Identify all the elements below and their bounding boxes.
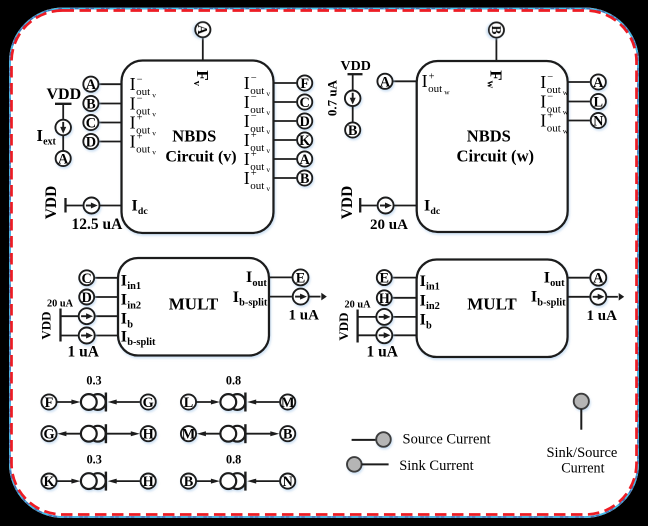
svg-text:B: B xyxy=(348,123,358,139)
node B (top of w) xyxy=(489,22,504,37)
node L xyxy=(591,94,606,111)
svg-text:out: out xyxy=(547,122,561,134)
pin Iin1 xyxy=(121,273,141,293)
wire rail to Ib source xyxy=(358,316,377,318)
node A (w left) xyxy=(377,74,392,91)
pin I+out_v (right) xyxy=(244,168,271,193)
svg-text:v: v xyxy=(266,127,270,136)
mirror F-G: bar xyxy=(105,393,107,412)
svg-text:K: K xyxy=(43,474,55,490)
svg-text:0.3: 0.3 xyxy=(86,374,101,388)
label NBDS Circuit (v) xyxy=(165,127,236,166)
svg-text:A: A xyxy=(58,152,69,168)
svg-text:b: b xyxy=(426,320,432,331)
svg-text:I: I xyxy=(422,71,428,91)
mirror L-M: bar xyxy=(244,393,246,412)
svg-text:v: v xyxy=(152,148,156,157)
svg-text:I: I xyxy=(130,74,136,94)
node N xyxy=(591,113,606,130)
svg-text:D: D xyxy=(82,290,92,306)
svg-text:I: I xyxy=(233,289,239,306)
svg-text:H: H xyxy=(143,474,154,490)
label Iext xyxy=(37,126,57,148)
svg-text:H: H xyxy=(379,291,390,307)
svg-text:w: w xyxy=(563,127,569,136)
svg-text:Sink/Source: Sink/Source xyxy=(546,445,617,461)
mirror K-H: left wire into circles xyxy=(57,479,81,484)
svg-text:in1: in1 xyxy=(426,282,440,293)
svg-text:E: E xyxy=(380,271,390,287)
svg-text:+: + xyxy=(137,132,143,143)
pin I+out_w xyxy=(422,71,451,96)
svg-text:out: out xyxy=(252,278,267,289)
svg-text:G: G xyxy=(43,427,54,443)
svg-text:out: out xyxy=(136,143,150,155)
pin Ib-split xyxy=(121,329,156,349)
svg-text:K: K xyxy=(299,133,311,149)
pin Ib-split (MULT2 right) xyxy=(531,289,566,309)
mirror M-B: node B xyxy=(280,426,295,443)
mirror F-G: overlapped circles xyxy=(81,394,106,410)
node A (top of v) xyxy=(195,22,210,37)
svg-text:MULT: MULT xyxy=(467,295,517,314)
pin I+out_v (left) xyxy=(130,112,157,137)
wire v right pin xyxy=(274,120,298,122)
svg-text:I: I xyxy=(540,72,546,92)
mirror B-N: bar xyxy=(244,472,246,491)
pin Iin2 (MULT2) xyxy=(420,293,440,313)
svg-text:w: w xyxy=(563,88,569,97)
wire w right pin xyxy=(568,101,591,103)
svg-text:I: I xyxy=(531,289,537,306)
pin I−out_v (left) xyxy=(130,93,157,118)
svg-text:+: + xyxy=(137,113,143,124)
current source 1 uA (MULT2 out) xyxy=(590,289,606,305)
wire node E to MULT2 xyxy=(392,277,417,279)
MULT block U3 xyxy=(118,258,269,356)
mirror M-B: left wire out to M xyxy=(197,431,221,436)
wire Ibsplit out (MULT2) xyxy=(568,296,591,298)
node D xyxy=(297,113,312,130)
svg-text:1 uA: 1 uA xyxy=(587,308,618,324)
wire + arrow out xyxy=(606,296,618,298)
mirror K-H: node H xyxy=(141,474,156,491)
svg-text:I: I xyxy=(244,130,250,150)
svg-text:N: N xyxy=(283,474,294,490)
node B xyxy=(297,170,312,187)
wire w right pin xyxy=(568,120,591,122)
svg-text:20 uA: 20 uA xyxy=(47,299,74,310)
current source Ib-split (MULT2) xyxy=(376,327,392,343)
svg-text:in1: in1 xyxy=(127,281,141,292)
mirror B-N: node N xyxy=(280,474,295,491)
svg-text:C: C xyxy=(86,116,96,132)
svg-text:VDD: VDD xyxy=(339,186,356,220)
wire Ibsplit source to MULT2 xyxy=(392,334,416,336)
svg-text:−: − xyxy=(137,94,143,105)
VDD bar xyxy=(359,198,361,213)
svg-text:b-split: b-split xyxy=(127,337,156,348)
VDD bar xyxy=(55,103,72,105)
svg-text:NBDS: NBDS xyxy=(172,127,216,146)
svg-text:Sink Current: Sink Current xyxy=(399,458,474,474)
svg-text:I: I xyxy=(244,149,250,169)
svg-text:in2: in2 xyxy=(426,301,440,312)
svg-text:B: B xyxy=(283,427,293,443)
svg-text:w: w xyxy=(444,88,450,97)
svg-text:F: F xyxy=(300,76,309,92)
svg-text:out: out xyxy=(550,278,565,289)
mirror B-N: left wire into circles xyxy=(196,479,220,484)
svg-text:I: I xyxy=(130,93,136,113)
svg-text:I: I xyxy=(132,197,138,214)
mirror K-H: bar xyxy=(105,472,107,491)
current source 0.7 uA xyxy=(345,91,361,107)
svg-text:out: out xyxy=(250,180,264,192)
svg-text:out: out xyxy=(428,83,442,95)
svg-text:v: v xyxy=(266,108,270,117)
wire Ib source to MULT2 xyxy=(392,316,416,318)
svg-text:D: D xyxy=(86,135,96,151)
svg-text:B: B xyxy=(489,25,504,34)
wire Ib source to MULT xyxy=(95,315,118,317)
svg-text:−: − xyxy=(547,72,553,83)
svg-text:dc: dc xyxy=(430,206,440,217)
NBDS Circuit (w) block U2 xyxy=(417,61,568,232)
node F xyxy=(297,75,312,92)
svg-text:I: I xyxy=(37,126,43,145)
svg-text:N: N xyxy=(593,114,604,130)
svg-text:v: v xyxy=(266,184,270,193)
svg-text:I: I xyxy=(420,273,426,290)
svg-text:b-split: b-split xyxy=(537,297,566,308)
svg-text:VDD: VDD xyxy=(341,59,371,74)
pin I+out_v (left) xyxy=(130,131,157,156)
label NBDS Circuit (w) xyxy=(457,127,535,166)
legend sink current symbol xyxy=(347,457,389,472)
pin I+out_w (right) xyxy=(540,110,569,135)
wire v right pin xyxy=(274,101,298,103)
svg-text:Source Current: Source Current xyxy=(403,432,491,448)
wire v right pin xyxy=(274,139,298,141)
wire VDD to Iext source xyxy=(62,104,64,120)
pin Iout (MULT2) xyxy=(544,270,565,290)
mirror G-H: left wire out to G xyxy=(57,431,81,436)
mirror G-H: node H xyxy=(141,426,156,443)
svg-text:v: v xyxy=(266,89,270,98)
svg-text:A: A xyxy=(380,74,391,90)
pin I+out_v (right) xyxy=(244,149,271,174)
svg-text:Current: Current xyxy=(561,461,604,477)
wire node C to v xyxy=(98,122,121,124)
svg-text:M: M xyxy=(281,395,295,411)
svg-text:I: I xyxy=(540,110,546,130)
svg-text:E: E xyxy=(296,270,306,286)
mirror M-B: bar xyxy=(244,424,246,443)
svg-text:I: I xyxy=(121,273,127,290)
mirror K-H: overlapped circles xyxy=(81,473,106,489)
wire w right pin xyxy=(568,81,591,83)
node A xyxy=(297,151,312,168)
svg-text:F: F xyxy=(45,395,54,411)
svg-text:−: − xyxy=(547,92,553,103)
mirror B-N: node B xyxy=(181,474,196,491)
svg-text:I: I xyxy=(130,112,136,132)
mirror L-M: node M xyxy=(280,394,295,411)
mirror M-B: overlapped circles xyxy=(220,426,245,442)
pin I−out_v (left) xyxy=(130,74,157,99)
NBDS Circuit (v) block U1 xyxy=(122,61,274,234)
wire VDD to 20uA source xyxy=(360,205,377,207)
wire Ibsplit source to MULT xyxy=(95,335,118,337)
node C xyxy=(297,94,312,111)
node A (MULT2 out) xyxy=(590,270,606,287)
svg-text:b-split: b-split xyxy=(239,298,268,309)
mirror B-N: right wire into bar xyxy=(247,479,280,484)
legend source current symbol xyxy=(352,432,391,447)
svg-text:I: I xyxy=(544,270,550,287)
wire v right pin xyxy=(274,82,298,84)
node E xyxy=(377,270,392,287)
wire node D to MULT xyxy=(94,296,118,298)
wire Iout to node E xyxy=(269,276,292,278)
svg-text:+: + xyxy=(251,149,257,160)
node B xyxy=(83,96,98,113)
svg-text:12.5 uA: 12.5 uA xyxy=(72,216,124,233)
svg-text:0.8: 0.8 xyxy=(226,374,241,388)
pin Iin1 (MULT2) xyxy=(420,273,440,293)
wire Fw to node B xyxy=(495,38,497,61)
svg-text:−: − xyxy=(251,92,257,103)
svg-text:MULT: MULT xyxy=(169,295,219,314)
svg-text:I: I xyxy=(244,168,250,188)
svg-text:v: v xyxy=(266,146,270,155)
svg-text:1 uA: 1 uA xyxy=(367,344,399,361)
node C xyxy=(79,270,94,287)
svg-text:b: b xyxy=(127,319,133,330)
svg-text:B: B xyxy=(86,97,96,113)
svg-text:20 uA: 20 uA xyxy=(370,217,408,233)
node A (Iext) xyxy=(56,151,71,168)
node E xyxy=(293,269,309,286)
wire Ibsplit out xyxy=(269,296,293,298)
mirror L-M: right wire into bar xyxy=(247,400,280,405)
svg-text:I: I xyxy=(244,92,250,112)
wire node C to MULT xyxy=(94,277,118,279)
svg-text:VDD: VDD xyxy=(336,312,351,340)
mirror F-G: node F xyxy=(41,394,56,411)
pin I−out_v (right) xyxy=(244,92,271,117)
pin Iout (MULT1) xyxy=(246,269,267,289)
wire 12.5uA source to v Idc xyxy=(100,205,122,207)
svg-text:B: B xyxy=(300,171,310,187)
svg-text:G: G xyxy=(143,395,154,411)
pin Iin2 xyxy=(121,292,141,312)
mirror L-M: node L xyxy=(181,394,196,411)
wire 0.7uA to node B xyxy=(352,106,354,122)
mirror L-M: left wire into circles xyxy=(196,400,220,405)
node C xyxy=(83,115,98,132)
pin Ib xyxy=(121,311,133,331)
svg-text:0.3: 0.3 xyxy=(87,453,102,467)
svg-text:C: C xyxy=(300,95,310,111)
legend sink/source current symbol xyxy=(574,394,589,430)
mirror B-N: overlapped circles xyxy=(220,473,245,489)
svg-text:w: w xyxy=(563,108,569,117)
svg-text:+: + xyxy=(251,168,257,179)
svg-text:NBDS: NBDS xyxy=(467,127,511,146)
pin I−out_v (right) xyxy=(244,111,271,136)
svg-text:−: − xyxy=(251,111,257,122)
wire v right pin xyxy=(274,177,298,179)
mirror G-H: right wire out to H xyxy=(107,431,140,436)
mirror F-G: node G xyxy=(141,394,156,411)
svg-text:A: A xyxy=(195,25,210,35)
svg-text:Circuit (w): Circuit (w) xyxy=(457,147,535,166)
svg-text:Circuit (v): Circuit (v) xyxy=(165,149,236,166)
mirror M-B: node M xyxy=(181,426,196,443)
node D xyxy=(83,134,98,151)
mirror K-H: right wire into bar xyxy=(108,479,141,484)
mirror F-G: right wire into bar xyxy=(108,400,141,405)
pin Ib (MULT2) xyxy=(420,312,432,332)
current source Ib (MULT2) xyxy=(376,309,392,325)
svg-text:dc: dc xyxy=(138,206,148,217)
mirror G-H: bar xyxy=(105,424,107,443)
svg-text:I: I xyxy=(130,131,136,151)
pin I−out_w (right) xyxy=(540,72,569,97)
mirror G-H: overlapped circles xyxy=(81,426,106,442)
pin I−out_w (right) xyxy=(540,91,569,116)
VDD bar xyxy=(348,73,363,75)
svg-text:ext: ext xyxy=(43,137,56,148)
svg-text:D: D xyxy=(300,114,310,130)
wire + arrow out xyxy=(309,296,321,298)
wire v right pin xyxy=(274,158,298,160)
wire VDD to 12.5uA source xyxy=(66,205,84,207)
wire 20uA source to w Idc xyxy=(394,205,417,207)
svg-text:I: I xyxy=(420,293,426,310)
VDD bar xyxy=(64,198,66,213)
wire Fv to node A xyxy=(202,37,204,60)
svg-text:1 uA: 1 uA xyxy=(68,344,100,361)
wire node B to v xyxy=(98,103,121,105)
mirror G-H: node G xyxy=(41,426,56,443)
svg-text:A: A xyxy=(300,152,311,168)
pin I+out_v (right) xyxy=(244,130,271,155)
svg-text:VDD: VDD xyxy=(43,186,60,220)
node D xyxy=(79,290,94,307)
svg-text:H: H xyxy=(143,427,154,443)
svg-text:VDD: VDD xyxy=(39,311,54,339)
mirror L-M: overlapped circles xyxy=(220,394,245,410)
current source Ib (1uA) xyxy=(79,308,95,324)
mirror K-H: node K xyxy=(41,474,56,491)
svg-text:v: v xyxy=(152,90,156,99)
node A xyxy=(83,77,98,94)
mirror M-B: right wire out to B xyxy=(246,431,279,436)
node H xyxy=(377,290,392,307)
node K xyxy=(297,132,312,149)
svg-text:−: − xyxy=(137,74,143,85)
VDD rail (MULT1) xyxy=(59,309,61,342)
svg-text:20 uA: 20 uA xyxy=(345,299,372,310)
current source 20 uA xyxy=(378,198,394,214)
svg-text:A: A xyxy=(86,77,97,93)
svg-text:A: A xyxy=(593,271,604,287)
svg-text:1 uA: 1 uA xyxy=(289,308,320,324)
svg-text:in2: in2 xyxy=(127,300,141,311)
svg-text:+: + xyxy=(429,72,435,83)
svg-text:I: I xyxy=(420,312,426,329)
svg-text:I: I xyxy=(121,329,127,346)
wire node H to MULT2 xyxy=(392,297,417,299)
svg-text:0.7 uA: 0.7 uA xyxy=(325,79,340,116)
svg-text:I: I xyxy=(540,91,546,111)
svg-text:v: v xyxy=(266,165,270,174)
svg-text:VDD: VDD xyxy=(47,86,82,103)
pin Idc (w) xyxy=(424,197,441,217)
wire VDD to 0.7uA source xyxy=(352,74,354,90)
VDD rail (MULT2) xyxy=(356,310,358,343)
wire node A to w xyxy=(392,80,416,82)
svg-text:I: I xyxy=(121,292,127,309)
svg-text:L: L xyxy=(184,395,194,411)
wire node A to v xyxy=(98,83,121,85)
svg-text:I: I xyxy=(424,197,430,214)
svg-text:C: C xyxy=(82,271,92,287)
svg-text:I: I xyxy=(244,73,250,93)
wire Iout to node A xyxy=(568,277,591,279)
svg-text:I: I xyxy=(121,311,127,328)
svg-text:v: v xyxy=(152,110,156,119)
node A xyxy=(591,74,606,91)
svg-text:I: I xyxy=(246,269,252,286)
current source Iext xyxy=(55,120,71,136)
wire Iext to node A xyxy=(62,135,64,151)
svg-text:I: I xyxy=(244,111,250,131)
current source 1 uA (MULT1 out) xyxy=(293,289,309,305)
legend text Sink/Source Current xyxy=(546,445,617,477)
pin I−out_v (right) xyxy=(244,73,271,98)
wire rail to Ibsplit source xyxy=(358,334,377,336)
pin Idc (v) xyxy=(132,197,149,217)
current source Ib-split (1uA) xyxy=(79,328,95,344)
svg-text:0.8: 0.8 xyxy=(226,453,241,467)
svg-text:+: + xyxy=(251,130,257,141)
svg-text:v: v xyxy=(152,129,156,138)
wire node D to v xyxy=(98,141,121,143)
mirror F-G: left wire into circles xyxy=(57,400,81,405)
MULT block U4 xyxy=(417,260,568,358)
pin Ib-split (MULT1 right) xyxy=(233,289,268,309)
current source 12.5 uA xyxy=(84,198,100,214)
svg-text:M: M xyxy=(182,427,196,443)
svg-text:+: + xyxy=(547,111,553,122)
svg-text:B: B xyxy=(184,474,194,490)
wire rail to Ibsplit source xyxy=(61,335,79,337)
svg-text:A: A xyxy=(593,75,604,91)
svg-text:−: − xyxy=(251,73,257,84)
node B (0.7uA) xyxy=(345,122,360,139)
svg-text:L: L xyxy=(594,95,604,111)
wire rail to Ib source xyxy=(61,315,79,317)
